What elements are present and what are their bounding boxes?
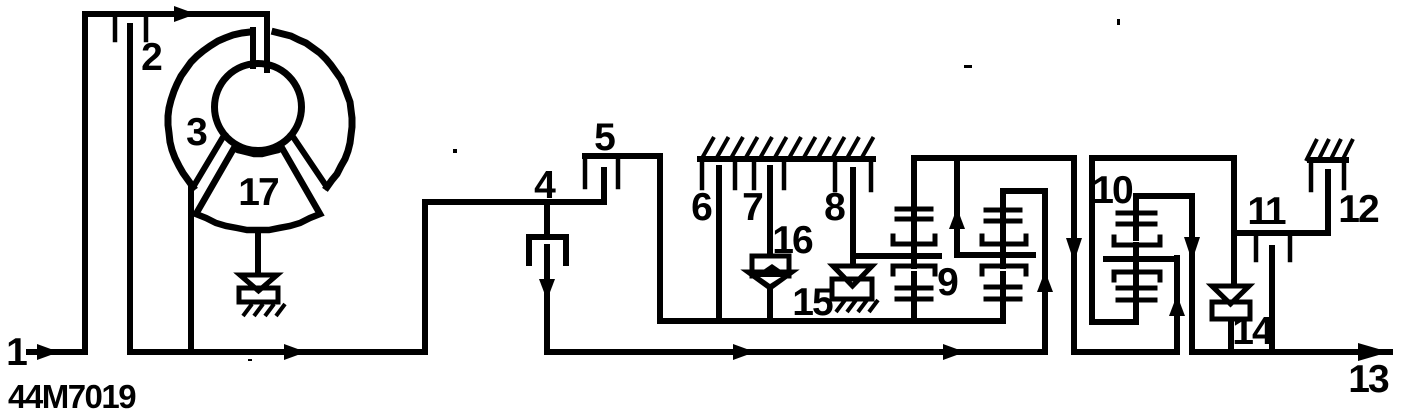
svg-text:7: 7 [742,186,762,229]
svg-text:6: 6 [691,186,712,229]
svg-text:44M7019: 44M7019 [8,378,136,414]
svg-text:3: 3 [186,111,207,154]
svg-text:13: 13 [1348,358,1389,401]
svg-text:11: 11 [1247,190,1286,233]
svg-text:1: 1 [6,331,27,374]
svg-text:10: 10 [1092,169,1133,212]
svg-text:15: 15 [792,281,833,324]
svg-text:4: 4 [534,164,556,207]
svg-text:2: 2 [141,36,162,79]
svg-text:8: 8 [824,186,845,229]
svg-text:17: 17 [238,171,278,214]
svg-text:5: 5 [594,116,615,159]
svg-text:14: 14 [1232,310,1274,353]
svg-text:9: 9 [937,261,958,304]
svg-text:16: 16 [772,219,813,262]
svg-text:12: 12 [1338,188,1379,231]
